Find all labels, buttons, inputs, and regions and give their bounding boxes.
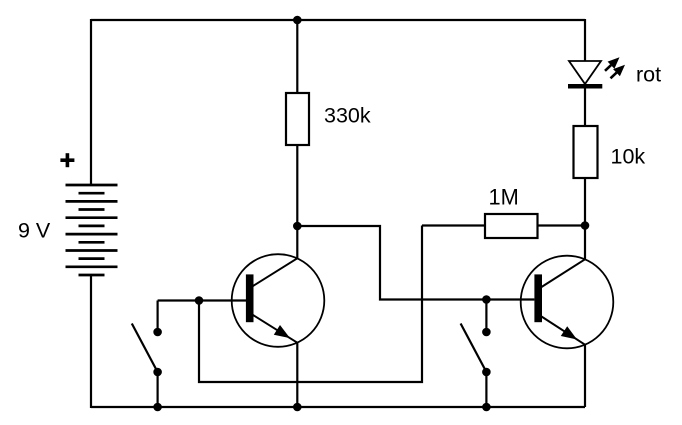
node Q2 base junction [482, 295, 491, 304]
wire battery negative lead [90, 275, 92, 408]
wire S2 top lead [485, 300, 487, 333]
node S1 top terminal [153, 328, 162, 337]
node Q2 collector / 1M right junction [581, 221, 590, 230]
battery 9V [66, 185, 118, 275]
wire Q1 base [158, 299, 246, 301]
node S2 bottom terminal [482, 368, 491, 377]
wire top rail [91, 19, 585, 21]
node S2 ground junction [482, 403, 491, 412]
wire cross-coupling Q1 base to 1M left [199, 226, 422, 383]
wire top rail to LED anode [584, 19, 586, 61]
wire LED cathode to 10k [584, 88, 586, 125]
svg-text:10k: 10k [611, 145, 646, 169]
wire 330k bottom lead to Q1 collector [296, 146, 298, 258]
wire 330k top lead [296, 20, 298, 92]
transistor Q1 [232, 254, 325, 347]
svg-text:rot: rot [636, 63, 661, 87]
wire S2 bottom lead [485, 372, 487, 407]
LED light arrow 1 [605, 57, 620, 71]
wire Q1 emitter lead [296, 343, 298, 407]
LED D1 [568, 61, 602, 86]
wire S1 bottom lead [157, 372, 159, 407]
wire cross-coupling Q1 collector to Q2 base [297, 226, 534, 300]
wire 1M right lead [539, 224, 586, 226]
node top rail junction [293, 16, 302, 25]
switch S1 lever [132, 324, 158, 373]
wire battery positive lead [90, 19, 92, 185]
wire 1M left lead [422, 224, 484, 226]
node Q1 collector junction [293, 222, 302, 231]
resistor R2 10k [574, 126, 598, 178]
resistor R3 1M [485, 214, 538, 238]
transistor Q2 [521, 256, 614, 349]
svg-text:330k: 330k [324, 103, 371, 127]
node S1 bottom terminal [153, 368, 162, 377]
switch S2 lever [461, 324, 487, 373]
wire Q2 emitter lead [584, 345, 586, 407]
svg-text:9 V: 9 V [18, 219, 51, 243]
node S1 ground junction [153, 403, 162, 412]
wire bottom rail [91, 406, 585, 408]
svg-text:1M: 1M [489, 185, 519, 210]
label battery plus [60, 153, 74, 167]
LED light arrow 2 [611, 65, 626, 79]
node Q1 base junction [195, 296, 204, 305]
wire 10k bottom lead to Q2 collector [584, 179, 586, 259]
node Q1 emitter ground junction [293, 403, 302, 412]
resistor R1 330k [286, 93, 309, 145]
node S2 top terminal [482, 328, 491, 337]
wire S1 top lead [157, 301, 159, 333]
